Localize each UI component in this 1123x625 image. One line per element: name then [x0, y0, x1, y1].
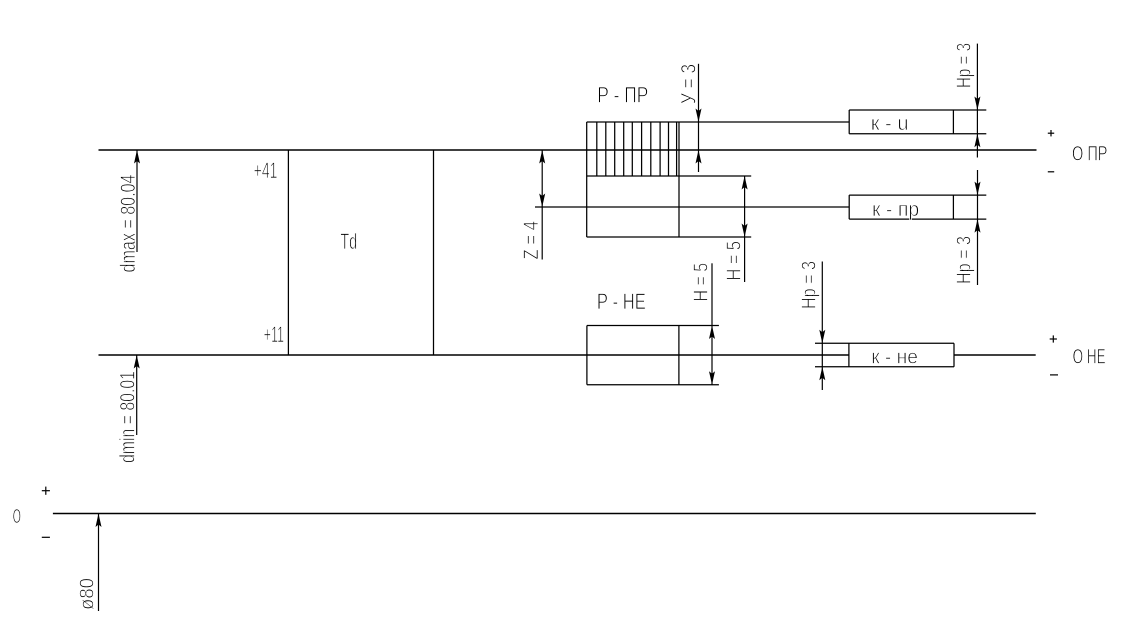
svg-text:ø80: ø80 [77, 578, 99, 610]
svg-text:к - пр: к - пр [872, 198, 919, 221]
svg-text:Р - ПР: Р - ПР [597, 82, 648, 107]
svg-text:Нр = 3: Нр = 3 [954, 43, 976, 88]
svg-text:Н = 5: Н = 5 [724, 241, 746, 281]
svg-text:Р - НЕ: Р - НЕ [597, 289, 646, 314]
svg-text:Нр = 3: Нр = 3 [799, 261, 821, 309]
svg-text:dmin = 80.01: dmin = 80.01 [117, 371, 140, 463]
svg-text:О НЕ: О НЕ [1073, 345, 1106, 369]
svg-text:У = 3: У = 3 [678, 64, 701, 104]
svg-text:Td: Td [340, 229, 357, 254]
svg-text:к - не: к - не [871, 346, 918, 369]
svg-text:Z = 4: Z = 4 [520, 221, 543, 260]
svg-text:О ПР: О ПР [1072, 141, 1108, 165]
svg-text:к - u: к - u [871, 112, 909, 135]
svg-text:Нр = 3: Нр = 3 [954, 236, 976, 284]
svg-text:Н = 5: Н = 5 [691, 263, 713, 302]
svg-text:+41: +41 [254, 158, 278, 183]
svg-text:dmax = 80.04: dmax = 80.04 [117, 174, 140, 272]
svg-text:+11: +11 [264, 322, 284, 347]
svg-text:О: О [13, 505, 21, 528]
